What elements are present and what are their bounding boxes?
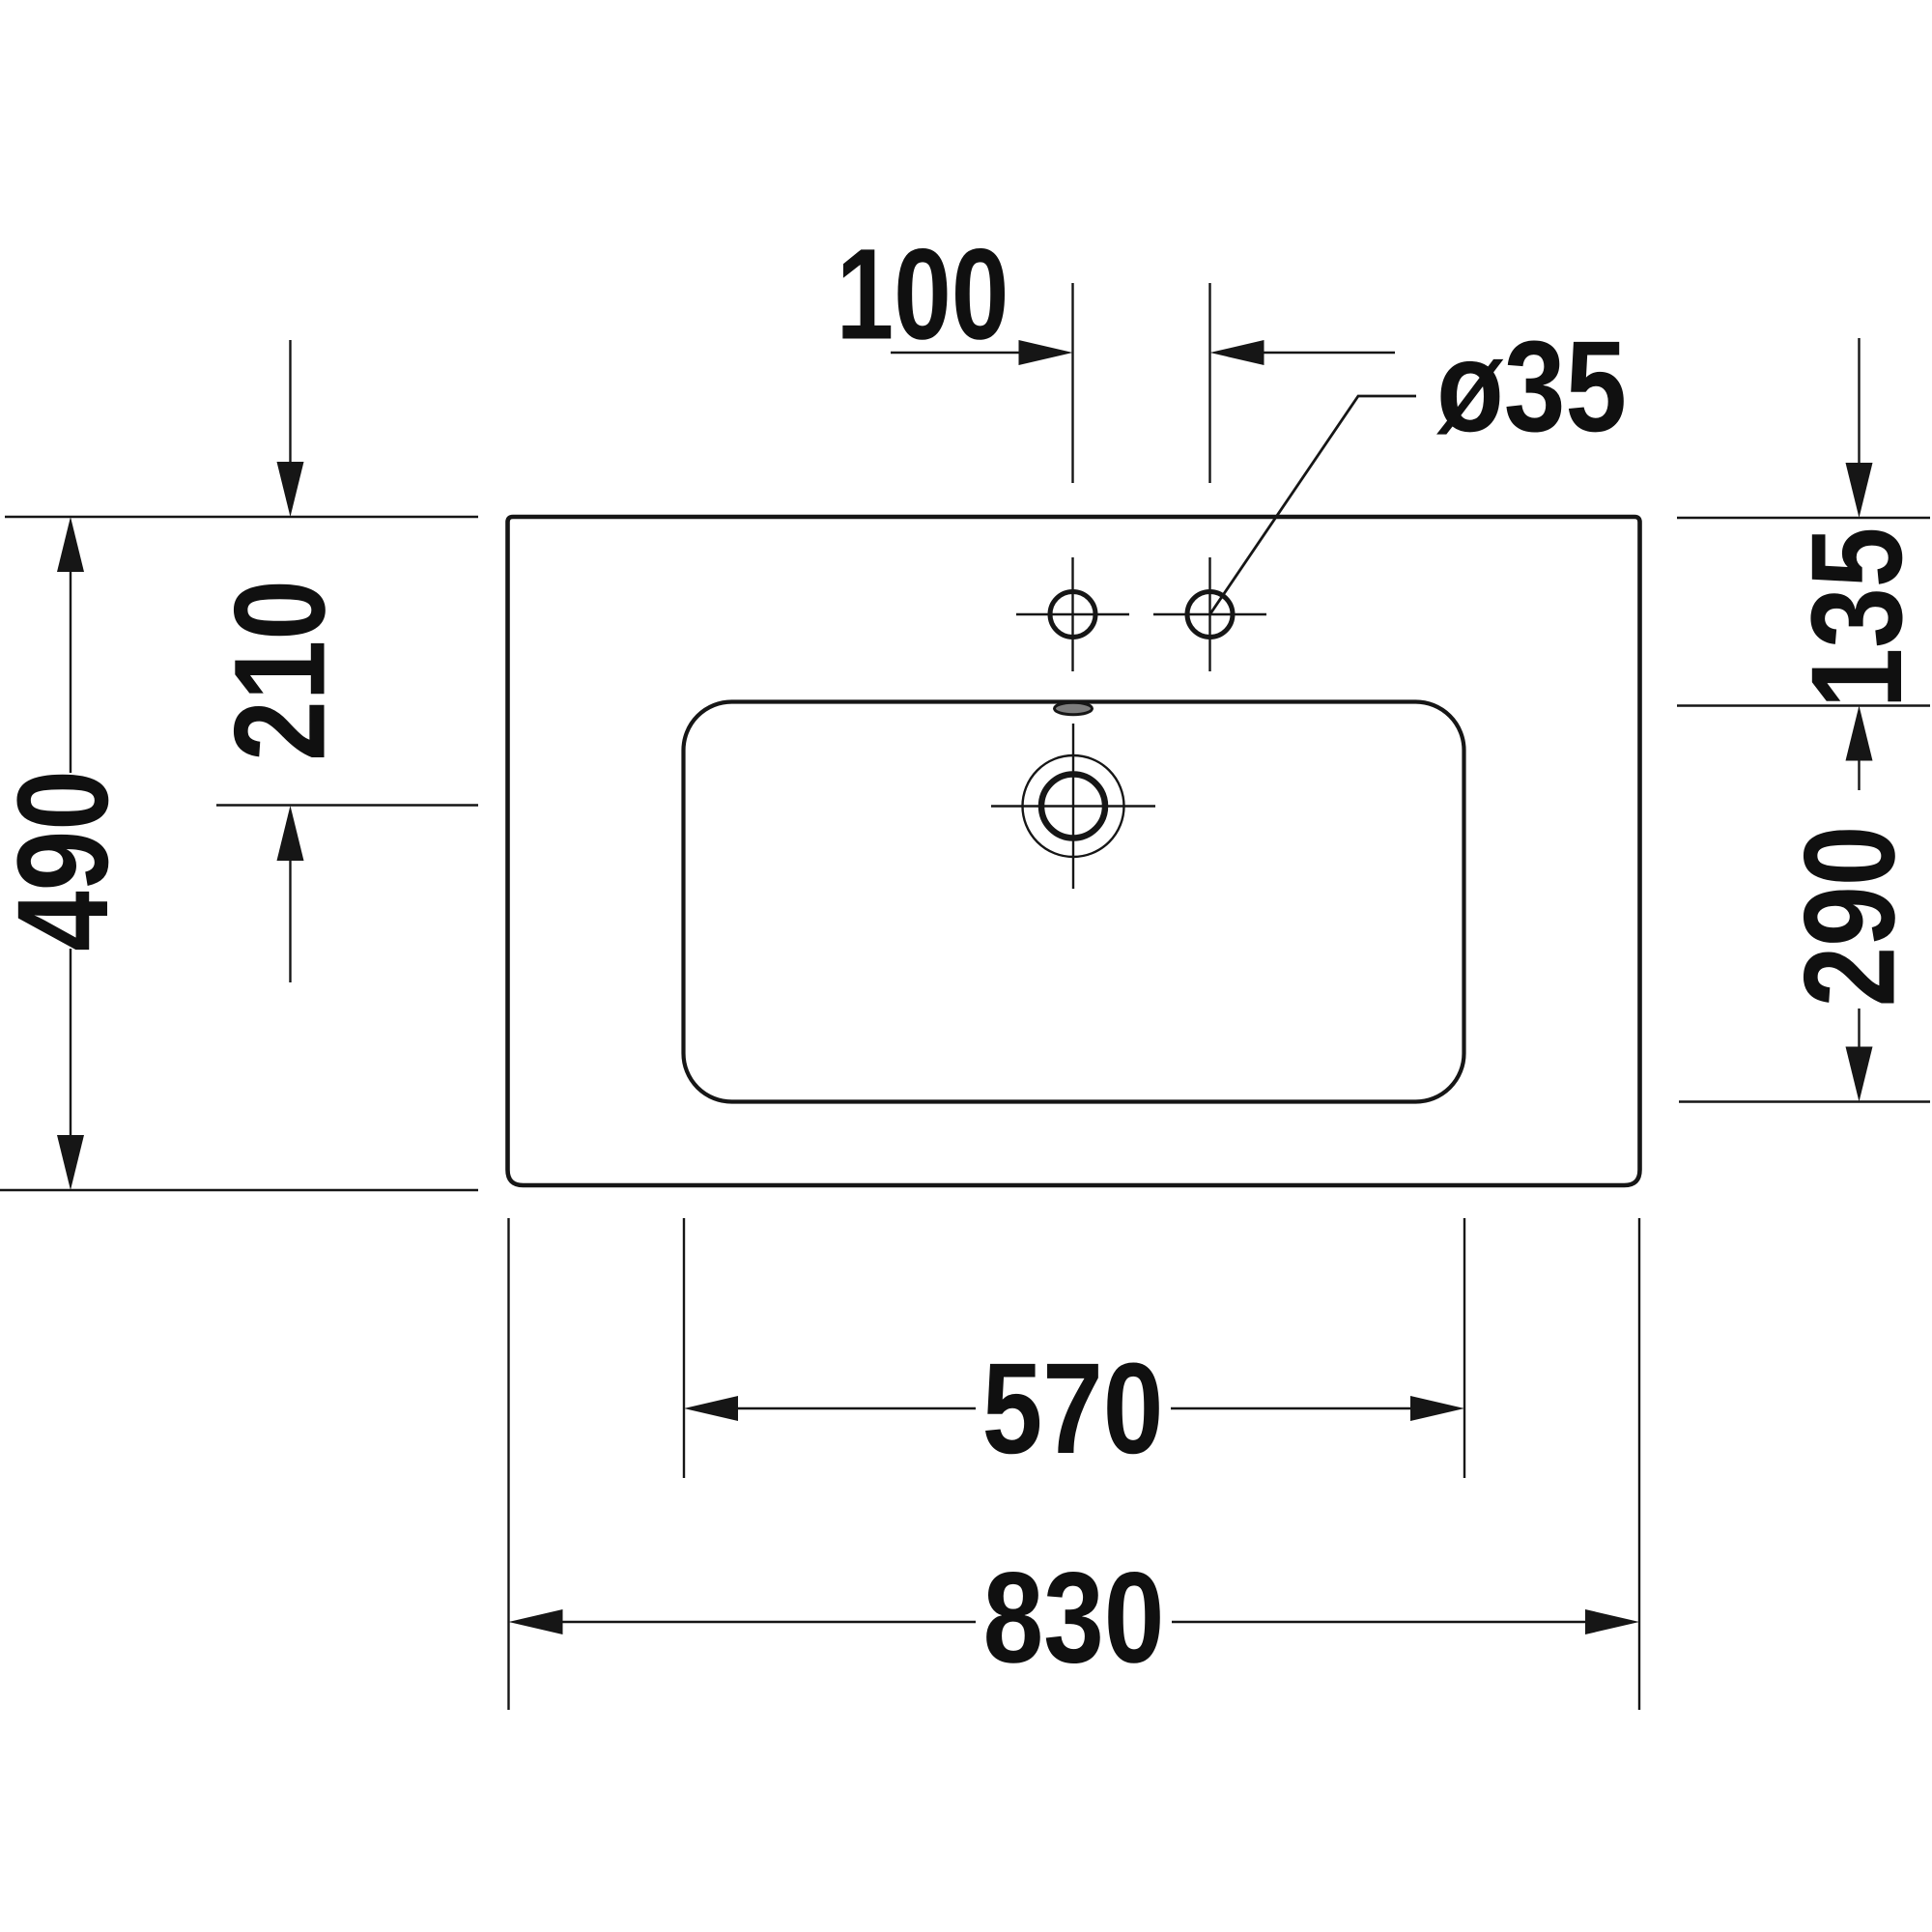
- dim 830 line: [563, 1621, 1588, 1623]
- arrowhead 210 top: [277, 462, 304, 517]
- dim text 570: [982, 1337, 1164, 1481]
- arrowhead 135 bottom: [1846, 706, 1873, 761]
- svg-text:570: 570: [982, 1337, 1164, 1481]
- arrowhead 830 right: [1585, 1609, 1639, 1634]
- drain inner circle: [1041, 775, 1105, 838]
- dim text 210: [208, 580, 352, 761]
- arrowhead 830 left: [509, 1609, 563, 1634]
- dim 100 arrow right: [1263, 352, 1395, 354]
- svg-text:290: 290: [1777, 826, 1921, 1008]
- svg-text:100: 100: [837, 221, 1009, 366]
- drain crosshair: [991, 724, 1155, 889]
- arrowhead 100 right: [1210, 340, 1264, 365]
- dim 570 extension line right: [1463, 1218, 1465, 1478]
- dim text 290: [1777, 826, 1921, 1008]
- dim 290 line: [1858, 1009, 1860, 1048]
- dim 135 arrow tails: [1858, 338, 1860, 790]
- faucet hole 1 crosshair: [1016, 557, 1129, 671]
- svg-text:135: 135: [1785, 527, 1929, 709]
- arrowhead 100 left: [1019, 340, 1073, 365]
- svg-text:830: 830: [983, 1546, 1165, 1690]
- arrowhead 135 top: [1846, 463, 1873, 518]
- faucet hole 1 circle: [1050, 592, 1095, 638]
- dim 210 extension line: [216, 804, 478, 806]
- dim 490 top extension line: [5, 516, 478, 518]
- dim text 830: [983, 1546, 1165, 1690]
- arrowhead 490 top: [57, 517, 84, 572]
- arrowhead 290 bottom: [1846, 1047, 1873, 1102]
- dim 570 line: [738, 1407, 1410, 1409]
- arrowhead 490 bottom: [57, 1135, 84, 1190]
- dim 135 extension line top: [1677, 517, 1930, 519]
- faucet hole 2 crosshair: [1153, 557, 1266, 671]
- leader line for hole diameter: [1210, 396, 1417, 614]
- dim 830 extension line left: [507, 1218, 509, 1710]
- dim 490 line: [70, 572, 71, 1135]
- svg-text:ø35: ø35: [1436, 314, 1627, 459]
- label text ø35: [1436, 314, 1627, 459]
- dim 490 bottom extension line: [0, 1189, 478, 1191]
- dim 290 extension line bottom: [1679, 1100, 1930, 1102]
- dim text 490: [0, 770, 135, 952]
- faucet hole 2 circle: [1187, 592, 1233, 638]
- drain outer circle: [1023, 755, 1124, 857]
- arrowhead 210 bottom: [277, 806, 304, 861]
- svg-text:210: 210: [208, 580, 352, 761]
- dim 100 extension line right: [1208, 283, 1210, 483]
- dim 830 extension line right: [1638, 1218, 1640, 1710]
- dim 210 arrow tails: [289, 340, 291, 982]
- overflow slot: [1055, 702, 1093, 714]
- dim 135 extension line bottom: [1677, 704, 1930, 706]
- inner bowl outline: [684, 702, 1464, 1102]
- dim text 100: [837, 221, 1009, 366]
- arrowhead 570 left: [684, 1396, 738, 1421]
- basin outline: [508, 517, 1640, 1185]
- dim 100 extension line left: [1071, 283, 1073, 483]
- dim text 135: [1785, 527, 1929, 709]
- arrowhead 570 right: [1410, 1396, 1464, 1421]
- dim 570 extension line left: [683, 1218, 685, 1478]
- dim 100 arrow left: [891, 352, 1020, 354]
- svg-text:490: 490: [0, 770, 135, 952]
